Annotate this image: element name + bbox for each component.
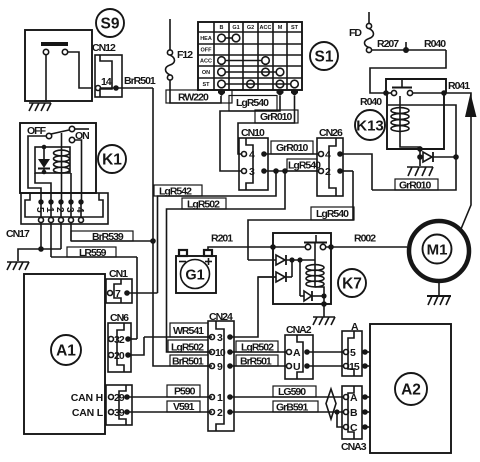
svg-text:29: 29 [114,392,125,404]
svg-text:B: B [220,25,224,31]
svg-text:R041: R041 [448,80,470,92]
svg-text:S1: S1 [315,49,334,66]
svg-text:2: 2 [54,207,65,213]
svg-text:LR559: LR559 [79,247,107,259]
svg-text:5: 5 [34,207,45,213]
svg-text:CAN H: CAN H [71,392,103,404]
svg-text:ACC: ACC [200,59,212,65]
svg-text:P590: P590 [174,386,196,398]
svg-text:BrR539: BrR539 [92,231,124,243]
svg-text:15: 15 [349,361,360,373]
svg-text:K1: K1 [102,152,122,169]
svg-text:R040: R040 [424,38,446,50]
svg-text:CN17: CN17 [6,228,30,240]
svg-text:LgR502: LgR502 [171,342,204,354]
svg-text:V591: V591 [173,401,195,413]
svg-text:LgR502: LgR502 [241,342,274,354]
svg-text:OFF: OFF [201,48,213,54]
svg-text:LgR502: LgR502 [187,199,220,211]
svg-text:CN12: CN12 [92,42,116,54]
svg-text:G1: G1 [232,25,239,31]
svg-text:G2: G2 [247,25,254,31]
svg-text:LgR540: LgR540 [236,97,269,109]
svg-text:14: 14 [101,76,112,88]
svg-text:FD: FD [349,27,362,39]
svg-text:GrR010: GrR010 [276,142,309,154]
svg-text:R201: R201 [211,233,233,245]
svg-text:R207: R207 [377,38,399,50]
svg-text:BrR501: BrR501 [240,356,272,368]
svg-text:BrR501: BrR501 [172,356,204,368]
svg-text:4: 4 [74,207,85,213]
svg-text:ON: ON [202,70,210,76]
svg-text:K13: K13 [356,118,384,135]
svg-text:G1: G1 [185,268,204,284]
svg-text:M1: M1 [427,242,448,259]
svg-text:M: M [278,25,283,31]
svg-text:ST: ST [202,82,210,88]
svg-text:RW220: RW220 [178,92,209,104]
svg-text:LgR540: LgR540 [288,160,321,172]
svg-text:CNA3: CNA3 [341,441,367,453]
svg-text:GrR010: GrR010 [260,111,293,123]
svg-text:F12: F12 [177,49,193,61]
svg-text:10: 10 [215,347,226,359]
svg-text:WR541: WR541 [173,325,204,337]
svg-text:32: 32 [114,334,125,346]
svg-text:BrR501: BrR501 [124,75,156,87]
svg-text:ACC: ACC [260,25,272,31]
svg-text:LG590: LG590 [278,386,306,398]
svg-text:39: 39 [114,407,125,419]
svg-text:U: U [293,361,300,373]
svg-text:K7: K7 [342,276,362,293]
svg-text:ST: ST [291,25,299,31]
svg-text:HEA: HEA [200,36,212,42]
svg-text:R040: R040 [360,96,382,108]
svg-text:CAN L: CAN L [72,407,104,419]
svg-text:20: 20 [114,350,125,362]
svg-text:3: 3 [64,207,75,213]
svg-text:CN10: CN10 [241,127,265,139]
svg-text:S9: S9 [101,16,120,33]
svg-text:1: 1 [44,207,55,213]
svg-text:A1: A1 [56,343,76,360]
svg-text:A2: A2 [401,382,421,399]
svg-text:R002: R002 [354,233,376,245]
svg-text:LgR542: LgR542 [159,186,192,198]
svg-text:CN26: CN26 [319,127,343,139]
svg-text:GrR010: GrR010 [399,180,432,192]
svg-text:LgR540: LgR540 [316,208,349,220]
svg-text:GrB591: GrB591 [276,402,309,414]
